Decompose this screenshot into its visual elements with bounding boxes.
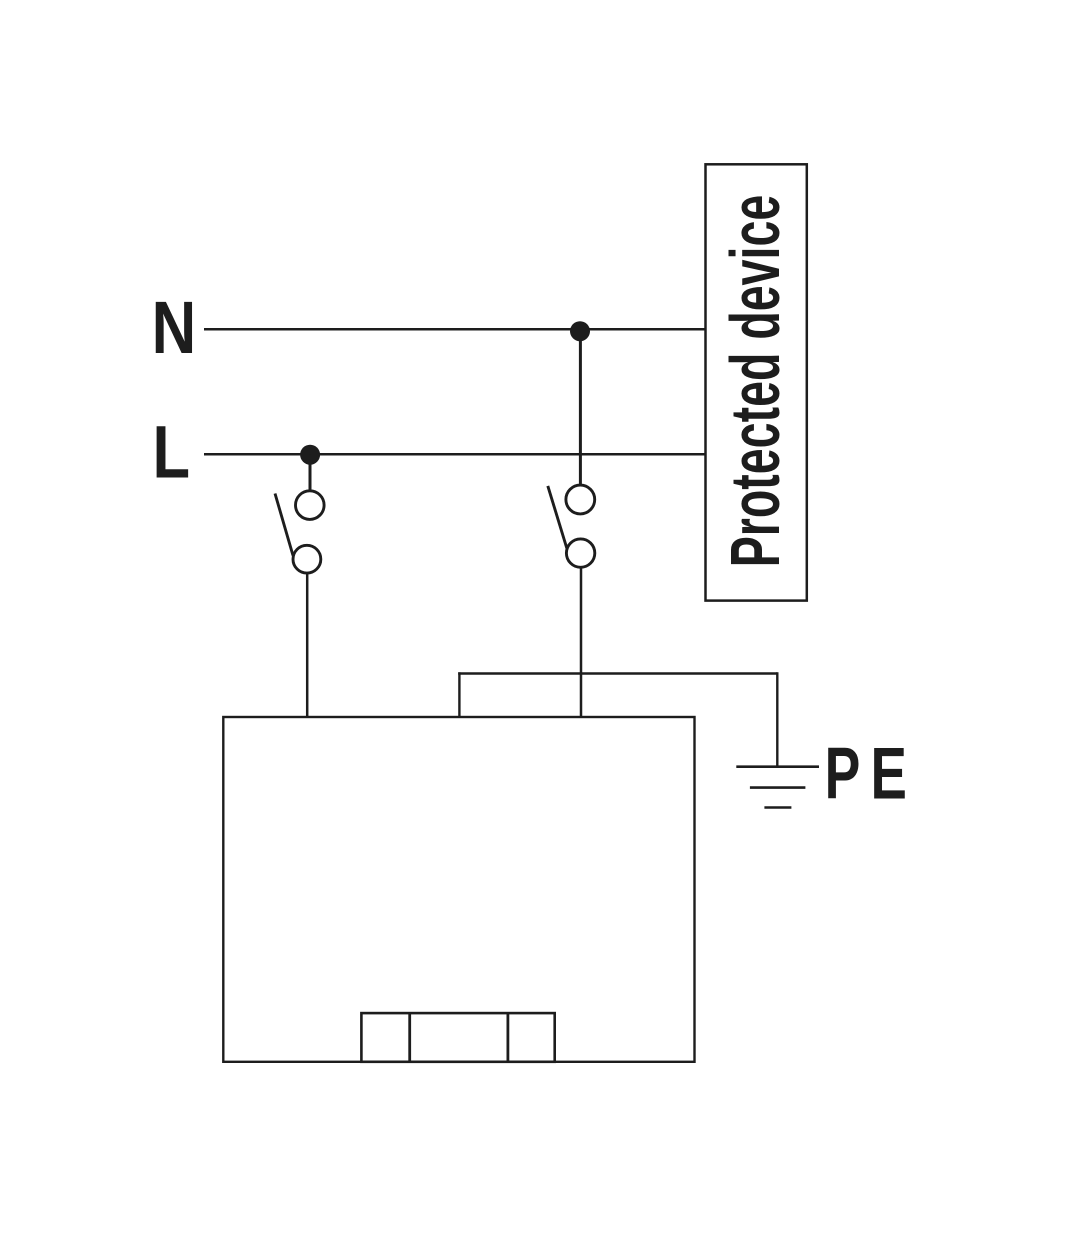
switch S2 lever bbox=[548, 486, 567, 549]
junction dot on N line bbox=[570, 321, 590, 341]
terminal block divider 2 bbox=[506, 1013, 509, 1062]
ground symbol bar 1 bbox=[736, 765, 819, 768]
wire N junction to switch S2 (crosses L line) bbox=[579, 331, 582, 485]
wire PE horizontal run bbox=[458, 672, 777, 674]
wire PE tap from device box top bbox=[458, 672, 460, 718]
wire S1 to device box bbox=[306, 573, 309, 718]
switch S1 bottom contact bbox=[293, 545, 321, 573]
wire PE drop to ground bbox=[776, 672, 778, 766]
wire L junction to switch S1 bbox=[309, 455, 312, 492]
switch S1 top contact bbox=[296, 491, 325, 520]
svg-text:N: N bbox=[152, 287, 197, 370]
junction dot on L line bbox=[300, 445, 320, 465]
ground symbol bar 3 bbox=[764, 806, 791, 809]
svg-text:Protected device: Protected device bbox=[715, 195, 794, 568]
protected device box bbox=[706, 164, 807, 600]
wire S2 to device box bbox=[580, 567, 583, 718]
terminal block divider 1 bbox=[408, 1013, 411, 1062]
svg-text:E: E bbox=[871, 731, 907, 814]
wire N line bbox=[204, 328, 707, 331]
switch S1 lever bbox=[275, 494, 293, 556]
terminal block outline bbox=[361, 1013, 554, 1062]
wire L line bbox=[204, 453, 707, 456]
svg-text:L: L bbox=[153, 411, 191, 494]
switch S2 top contact bbox=[566, 485, 595, 514]
switch S2 bottom contact bbox=[566, 539, 594, 567]
ground symbol bar 2 bbox=[750, 786, 806, 789]
PE label bbox=[825, 731, 907, 814]
device box (SPD unit) bbox=[223, 717, 694, 1062]
svg-text:P: P bbox=[825, 732, 861, 814]
